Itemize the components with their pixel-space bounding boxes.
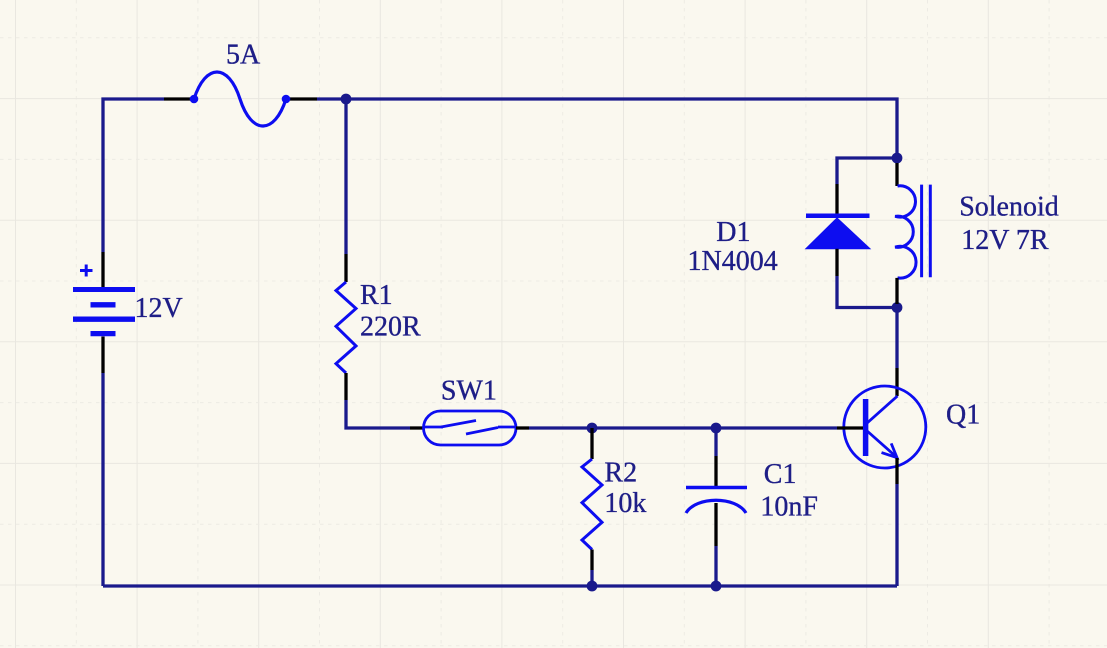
switch SW1 left pin <box>410 426 424 429</box>
resistor R1 top pin <box>344 254 347 282</box>
transistor Q1 emitter pin <box>895 458 898 484</box>
wire: D1 to bottom junction <box>837 276 897 308</box>
svg-text:R2: R2 <box>604 457 637 488</box>
svg-text:R1: R1 <box>360 280 393 311</box>
transistor Q1 base pin <box>837 426 863 429</box>
diode D1 cathode pin <box>835 184 838 214</box>
svg-text:1N4004: 1N4004 <box>687 246 777 277</box>
transistor Q1 collector stroke <box>866 396 898 424</box>
capacitor C1 top pin <box>714 456 717 487</box>
svg-text:5A: 5A <box>226 40 261 71</box>
node junction R2 bottom <box>587 581 598 592</box>
svg-text:SW1: SW1 <box>441 376 497 407</box>
wire: solenoid bottom to collector <box>895 304 898 368</box>
wire: R2 to bottom rail <box>590 570 593 586</box>
battery BT1 plate 4 short <box>91 331 116 336</box>
battery BT1 plate 3 long <box>73 317 135 322</box>
fuse F1 left pin <box>164 97 191 100</box>
transistor Q1 circle <box>844 386 926 468</box>
transistor Q1 base bar <box>863 399 869 456</box>
resistor R2 body zigzag <box>582 459 602 550</box>
wire: junction down to R1 <box>344 99 347 254</box>
fuse F1 body 5A <box>194 72 286 126</box>
node junction R2 top <box>587 423 598 434</box>
fuse F1 terminal dot right <box>282 95 291 104</box>
wire: bottom rail <box>103 584 897 587</box>
svg-text:D1: D1 <box>716 217 750 248</box>
node junction solenoid bottom <box>892 302 903 313</box>
battery BT1 bottom pin <box>101 337 104 374</box>
wire: C1 junction down <box>714 428 717 456</box>
wire: C1 to bottom rail <box>714 546 717 586</box>
diode D1 triangle <box>806 218 870 249</box>
svg-text:220R: 220R <box>360 312 421 343</box>
capacitor C1 curved plate <box>686 500 746 513</box>
transistor Q1 emitter arrowhead <box>882 443 898 457</box>
fuse F1 right pin <box>290 97 317 100</box>
battery BT1 plus sign <box>80 265 93 277</box>
svg-text:Q1: Q1 <box>946 400 980 431</box>
wire: fuse to top-right corner, down to solenoid <box>317 99 897 163</box>
inductor solenoid bottom pin <box>895 278 898 304</box>
node junction C1 bottom <box>711 581 722 592</box>
node junction solenoid top <box>892 153 903 164</box>
wire: top junction to D1 <box>837 158 897 184</box>
battery BT1 top pin <box>101 252 104 287</box>
svg-text:12V: 12V <box>135 293 183 324</box>
wire: battery negative to bottom rail <box>101 373 104 586</box>
inductor solenoid core bar 1 <box>920 185 923 278</box>
wire: SW1 to R2/C1/base <box>529 426 837 429</box>
svg-text:C1: C1 <box>764 459 797 490</box>
diode D1 anode pin <box>835 249 838 276</box>
resistor R1 bottom pin <box>344 373 347 400</box>
transistor Q1 collector pin <box>895 368 898 396</box>
wire: emitter to bottom rail <box>895 484 898 586</box>
svg-text:10nF: 10nF <box>760 491 818 522</box>
switch SW1 body <box>424 411 517 445</box>
node junction C1 top <box>711 423 722 434</box>
resistor R1 body zigzag <box>336 282 356 373</box>
fuse F1 terminal dot left <box>190 95 199 104</box>
inductor solenoid top pin <box>895 163 898 186</box>
wire: R1 to SW1 <box>346 400 410 428</box>
battery BT1 plate 1 long <box>73 287 135 292</box>
svg-text:12V 7R: 12V 7R <box>961 225 1049 256</box>
resistor R2 bottom pin <box>590 550 593 571</box>
inductor solenoid coil arcs <box>895 186 916 278</box>
diode D1 cathode bar <box>806 214 870 219</box>
svg-text:10k: 10k <box>604 488 646 519</box>
switch SW1 right pin <box>516 426 529 429</box>
wire: battery positive to fuse <box>103 99 164 252</box>
node junction at fuse/R1 <box>341 94 352 105</box>
resistor R2 top pin <box>590 428 593 459</box>
inductor solenoid core bar 2 <box>929 185 932 278</box>
battery BT1 plate 2 short <box>91 302 116 307</box>
svg-text:Solenoid: Solenoid <box>959 192 1059 223</box>
capacitor C1 bottom pin <box>714 503 717 546</box>
transistor Q1 emitter stroke <box>866 430 897 457</box>
capacitor C1 top plate <box>686 486 747 489</box>
